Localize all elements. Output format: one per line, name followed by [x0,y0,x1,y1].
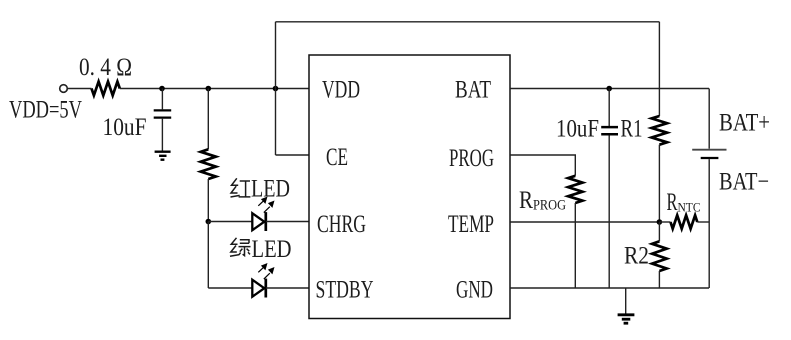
wire R1 to TEMP node [658,145,660,222]
battery BT1 [708,89,710,149]
svg-text:10uF: 10uF [556,116,599,143]
svg-text:GND: GND [456,277,493,304]
op-amp U1 charger IC body [309,55,510,319]
svg-text:CHRG: CHRG [317,211,366,238]
svg-text:PROG: PROG [449,145,494,172]
wire LED node down to STDBY row [207,222,209,289]
resistor RNTC [671,215,698,228]
svg-text:R: R [519,187,533,214]
svg-text:VDD=5V: VDD=5V [9,97,82,124]
wire R2 leads [658,222,660,241]
wire RPROG to ground rail [574,203,576,288]
wire ground rail [510,287,709,289]
svg-text:TEMP: TEMP [448,211,494,238]
ground (main) [625,288,627,314]
resistor R2 [652,241,667,271]
svg-text:PROG: PROG [533,198,566,214]
svg-text:BAT−: BAT− [719,169,769,196]
wire to red LED [208,221,252,223]
label lv (green) hanzi [230,238,251,256]
wire top rail [276,21,660,23]
label hong (red) hanzi [231,178,251,197]
node BAT cap junction [606,86,612,92]
svg-text:NTC: NTC [678,200,701,215]
wire TEMP [510,221,659,223]
svg-text:BAT: BAT [455,77,491,104]
svg-text:VDD: VDD [322,77,360,104]
node C1 junction [159,86,165,92]
LED green light arrows [258,263,274,279]
wire BAT [510,88,709,90]
wire down to LED resistor [207,89,209,150]
wire terminal to resistor [67,88,91,90]
ground (C1) [155,150,171,152]
LED red light arrows [258,197,274,213]
resistor RPROG [568,176,582,203]
capacitor C1 10uF [161,89,163,110]
resistor LED pullup [201,149,216,179]
node TEMP junction [657,219,663,225]
wire CE to IC [276,154,310,156]
svg-text:LED: LED [251,176,290,203]
input terminal [60,85,68,93]
wire PROG [510,155,575,176]
wire to green LED [208,287,252,289]
svg-text:STDBY: STDBY [316,277,374,304]
svg-text:CE: CE [326,144,348,171]
node LED resistor junction [206,86,212,92]
svg-text:BAT+: BAT+ [719,110,770,137]
svg-text:R1: R1 [621,116,643,143]
wire resistor to LED node [207,179,209,222]
LED red (CHRG) [252,213,264,230]
wire VDD rail [120,88,309,90]
svg-text:0. 4 Ω: 0. 4 Ω [79,54,132,81]
node CE tie junction [273,86,279,92]
resistor 0.4ohm [92,82,120,96]
wire RNTC to battery line [659,221,670,223]
svg-text:LED: LED [252,236,292,263]
svg-text:R: R [667,189,678,216]
resistor R1 [652,116,668,145]
svg-text:R2: R2 [624,243,649,270]
node LED anode junction [206,219,212,225]
LED green (STDBY) [252,280,264,297]
svg-text:10uF: 10uF [103,114,147,141]
wire top rail down to R1 [658,22,660,116]
capacitor C2 10uF [608,89,610,127]
wire CE vertical to top rail [275,22,277,155]
